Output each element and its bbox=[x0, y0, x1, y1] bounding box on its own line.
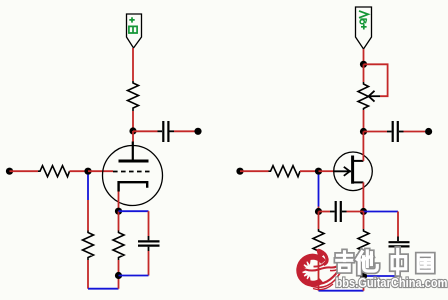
wire resistor to grid node bbox=[70, 170, 89, 172]
wire gate node down (blue) bbox=[318, 175, 320, 207]
wire bypass cap bottom right bbox=[397, 252, 399, 276]
wire to gate bias node bbox=[318, 207, 320, 212]
wire to grid-leak resistor bbox=[87, 200, 89, 231]
node grid junction bbox=[84, 168, 91, 175]
watermark dragon logo bbox=[299, 250, 341, 290]
wire source node to source resistor bbox=[363, 212, 365, 230]
node cathode junction bbox=[115, 208, 122, 215]
wire resistor to plate node bbox=[132, 111, 134, 131]
wire drain node to coupling cap bbox=[364, 131, 388, 133]
wire trimpot loop (node right, down) bbox=[364, 64, 388, 96]
wire cathode resistor to bottom node bbox=[118, 260, 120, 276]
node output terminal right bbox=[425, 128, 432, 135]
wire grid node to tube grid bbox=[88, 170, 113, 172]
glyph 他 bbox=[357, 251, 377, 273]
node input terminal left bbox=[6, 168, 13, 175]
transistor Q1 JFET envelope bbox=[334, 152, 373, 191]
wire cathode node to bypass cap (blue) bbox=[119, 210, 149, 212]
tube V1 plate bar bbox=[119, 160, 149, 163]
wire gate-bias node to resistor bbox=[318, 212, 320, 230]
wire bottom rail right (blue) bbox=[319, 290, 364, 292]
resistor gate stopper (horizontal) bbox=[269, 166, 301, 177]
wire bypass cap to bottom node (blue) bbox=[119, 275, 149, 277]
capacitor C-coupling left bbox=[158, 121, 175, 142]
wire gate node to JFET gate bbox=[319, 170, 335, 172]
node trimpot top junction bbox=[360, 61, 367, 68]
wire riser to cathode-bottom node bbox=[118, 276, 120, 289]
wire trimpot node to resistor bbox=[363, 64, 365, 82]
wire gate-bias node to feedback cap bbox=[319, 211, 331, 213]
wire input to gate resistor bbox=[240, 170, 269, 172]
wire coupling cap to output bbox=[174, 130, 195, 132]
wire trimpot to drain node bbox=[363, 110, 365, 132]
resistor grid leak (vertical) bbox=[83, 231, 94, 261]
wire feedback cap to source node bbox=[347, 211, 364, 213]
node gate junction bbox=[315, 168, 322, 175]
node plate junction bbox=[129, 127, 136, 134]
watermark text bbs.GuitarChina.com bbox=[336, 275, 448, 290]
node source junction bbox=[360, 208, 367, 215]
capacitor C-coupling right bbox=[387, 121, 404, 142]
resistor source (vertical) bbox=[358, 229, 369, 258]
wire cathode lead bbox=[118, 192, 120, 209]
wire riser to source-bottom node bbox=[363, 276, 365, 291]
power flag B+ bbox=[127, 14, 142, 48]
wire +9V to trimpot node bbox=[363, 49, 365, 64]
glyph 国 bbox=[418, 255, 432, 271]
wire cathode node to cathode resistor bbox=[118, 211, 120, 230]
wire bypass cap bottom bbox=[148, 251, 150, 276]
wire bypass cap to source-bottom node (blue) bbox=[364, 275, 399, 277]
wire source node to bypass cap (blue) bbox=[364, 211, 399, 213]
power flag +9V bbox=[356, 7, 372, 49]
transistor Q1 drain bar bbox=[353, 160, 363, 162]
resistor plate load bbox=[128, 81, 139, 111]
wire plate node to coupling cap bbox=[133, 130, 158, 132]
tube V1 cathode bbox=[119, 182, 148, 191]
wire bottom rail left (blue) bbox=[88, 288, 119, 290]
wire grid-leak resistor to bottom rail bbox=[87, 260, 89, 289]
wire gate-leak resistor to bottom rail bbox=[318, 258, 320, 291]
wire B+ to plate resistor bbox=[132, 48, 134, 81]
trimpot wiper arrow bbox=[369, 91, 380, 102]
wire drain vertical bbox=[362, 132, 364, 161]
wire source resistor to bottom node bbox=[363, 258, 365, 276]
watermark dragon head fin bbox=[316, 249, 326, 260]
resistor cathode (vertical) bbox=[113, 231, 124, 261]
transistor Q1 gate lead with arrow bbox=[334, 167, 351, 176]
wire resistor to gate node bbox=[300, 170, 319, 172]
node source-bottom junction bbox=[360, 272, 367, 279]
transistor Q1 channel bar bbox=[351, 156, 354, 184]
tube V1 plate lead bbox=[132, 142, 134, 161]
wire plate node to tube plate bbox=[132, 131, 134, 142]
wire input to grid resistor bbox=[10, 170, 39, 172]
glyph 吉 bbox=[337, 252, 352, 271]
op-amp-region tube V1 triode envelope bbox=[103, 146, 163, 206]
resistor gate leak (vertical) bbox=[313, 229, 324, 258]
node output terminal left bbox=[194, 128, 201, 135]
node drain junction bbox=[360, 128, 367, 135]
wire source vertical bbox=[362, 182, 364, 208]
node input terminal right bbox=[236, 168, 243, 175]
transistor Q1 source bar bbox=[353, 181, 363, 183]
capacitor cathode bypass left bbox=[138, 236, 160, 251]
tube V1 grid (dashed) bbox=[113, 171, 150, 173]
wire grid node down (blue) bbox=[87, 175, 89, 201]
wire down to bypass cap bbox=[148, 211, 150, 236]
node gate-bias junction bbox=[315, 208, 322, 215]
capacitor source bypass right bbox=[389, 237, 410, 253]
wire coupling cap to output right bbox=[404, 131, 426, 133]
resistor grid stopper (horizontal) bbox=[38, 166, 70, 177]
capacitor gate-source feedback bbox=[330, 201, 347, 222]
watermark text 吉他中国 bbox=[337, 249, 433, 273]
glyph 中 bbox=[392, 249, 406, 273]
watermark dragon inner teeth bbox=[301, 259, 311, 281]
resistor trimpot body bbox=[358, 82, 369, 110]
wire down to right bypass cap bbox=[397, 212, 399, 237]
node cathode-bottom junction bbox=[115, 272, 122, 279]
svg-text:bbs.GuitarChina.com: bbs.GuitarChina.com bbox=[336, 275, 448, 290]
